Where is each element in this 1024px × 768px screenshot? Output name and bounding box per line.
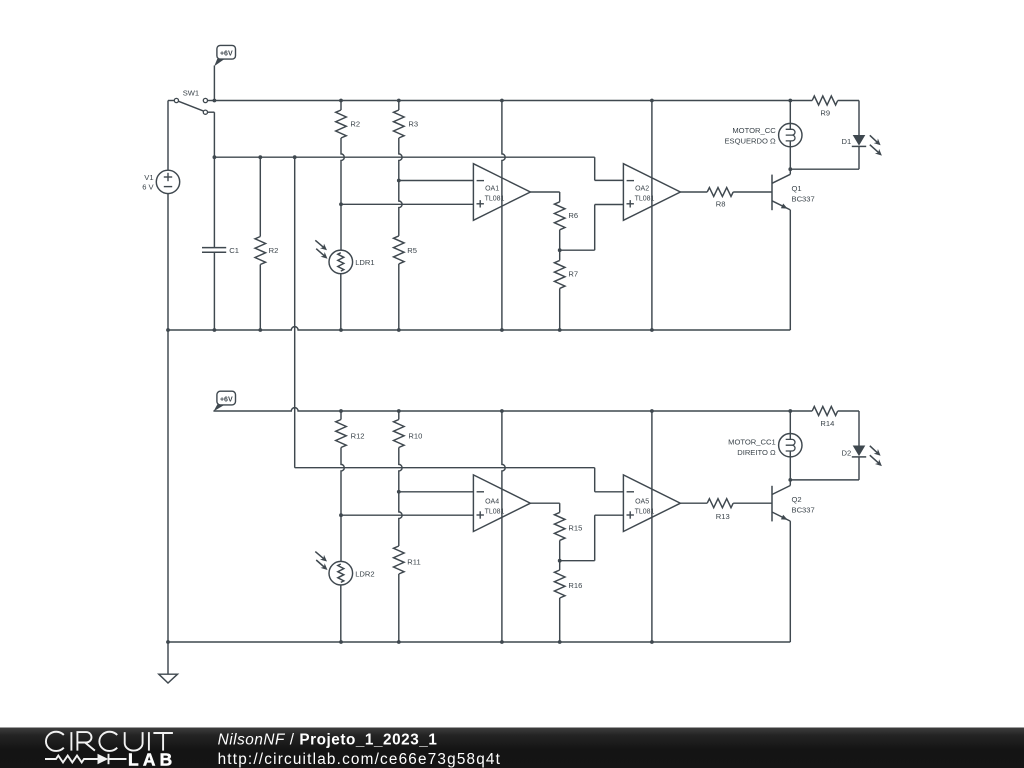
- motor MOTOR_CC: [789, 101, 791, 124]
- wire Q1 collector: [789, 169, 791, 174]
- svg-text:SW1: SW1: [183, 89, 199, 98]
- node A junction (OA1 +): [339, 202, 343, 206]
- svg-text:6 V: 6 V: [142, 182, 154, 191]
- resistor R2 (divider top): [340, 101, 342, 111]
- wire D1 to collector node: [858, 146, 860, 169]
- +6V rail (bottom): [213, 408, 790, 411]
- node B junction (OA1 -): [397, 179, 401, 183]
- svg-text:R16: R16: [568, 581, 582, 590]
- junction dots rail1: [213, 99, 217, 103]
- node D junction (collector): [788, 167, 792, 171]
- reference rail (bottom): [295, 467, 595, 469]
- resistor R11: [399, 492, 402, 546]
- junction dots rail B1: [339, 409, 343, 413]
- resistor R5: [399, 181, 402, 236]
- resistor R7: [559, 250, 561, 260]
- svg-text:D1: D1: [842, 137, 852, 146]
- reference rail2 (top): [214, 156, 594, 158]
- svg-text:R12: R12: [351, 432, 365, 441]
- svg-text:R15: R15: [568, 523, 582, 532]
- svg-text:LAB: LAB: [128, 749, 176, 768]
- transistor Q2: [771, 486, 773, 522]
- wire Q2 emitter: [789, 521, 791, 642]
- CircuitLab logo resistor-diode glyph: [45, 756, 98, 763]
- svg-text:Q2: Q2: [792, 495, 802, 504]
- svg-text:R9: R9: [820, 109, 830, 118]
- ground rail (bottom circuit): [168, 641, 790, 643]
- photoresistor LDR2: [329, 561, 353, 585]
- motor MOTOR_CC1: [789, 411, 791, 434]
- svg-text:C1: C1: [229, 246, 239, 255]
- wire OA1 minus input: [399, 180, 474, 182]
- wire OA1 output: [530, 191, 559, 193]
- svg-text:BC337: BC337: [792, 506, 815, 515]
- wire D2 to collector node: [858, 457, 860, 480]
- resistor R10: [398, 411, 400, 420]
- wire OA2 plus input: [560, 249, 595, 251]
- svg-text:OA5: OA5: [635, 499, 649, 506]
- capacitor C1: [213, 157, 215, 247]
- wire OA1 power: [502, 101, 505, 331]
- wire OA5 plus input: [560, 560, 595, 562]
- svg-text:R3: R3: [408, 119, 418, 128]
- wire OA5 minus input: [594, 468, 596, 492]
- svg-text:DIREITO Ω: DIREITO Ω: [737, 448, 776, 457]
- node H junction (collector 2): [788, 478, 792, 482]
- wire Q2 collector: [789, 480, 791, 486]
- wire OA2 power: [651, 101, 653, 331]
- svg-text:NilsonNF / Projeto_1_2023_1: NilsonNF / Projeto_1_2023_1: [218, 732, 438, 749]
- junction dots ground rail bottom: [166, 640, 170, 644]
- wire R13 to Q2 base: [733, 502, 772, 504]
- svg-text:BC337: BC337: [792, 194, 815, 203]
- svg-text:R7: R7: [568, 270, 578, 279]
- op-amp OA5: [623, 475, 680, 532]
- op-amp OA2: [623, 164, 680, 221]
- svg-text:R6: R6: [568, 211, 578, 220]
- svg-text:OA2: OA2: [635, 186, 649, 193]
- power flag +6V (top): [217, 45, 236, 59]
- diode D1 (LED): [853, 135, 866, 146]
- svg-text:R10: R10: [408, 432, 422, 441]
- svg-text:OA4: OA4: [485, 499, 499, 506]
- wire R8 to Q1 base: [733, 191, 772, 193]
- resistor R15: [554, 512, 565, 540]
- wire OA5 power: [651, 411, 653, 642]
- svg-text:http://circuitlab.com/ce66e73g: http://circuitlab.com/ce66e73g58q4t: [218, 751, 502, 768]
- wire flag to rail: [213, 66, 215, 101]
- wire OA4 plus input: [341, 514, 473, 516]
- svg-text:R14: R14: [820, 419, 834, 428]
- resistor R12: [340, 411, 342, 420]
- resistor R8: [707, 188, 733, 197]
- svg-text:+6V: +6V: [220, 51, 233, 58]
- resistor R3: [398, 101, 400, 111]
- svg-text:MOTOR_CC: MOTOR_CC: [732, 126, 776, 135]
- wire OA4 power: [502, 411, 505, 642]
- power flag +6V (bottom): [217, 391, 236, 405]
- svg-text:V1: V1: [144, 173, 153, 182]
- wire left vertical lower: [167, 330, 169, 642]
- op-amp OA1: [473, 164, 530, 221]
- op-amp OA4: [473, 475, 530, 532]
- diode D2 (LED): [853, 446, 866, 457]
- svg-text:LDR2: LDR2: [355, 569, 374, 578]
- wire R14 to D2: [858, 411, 860, 446]
- svg-text:R2: R2: [269, 246, 279, 255]
- svg-text:D2: D2: [842, 449, 852, 458]
- svg-text:+6V: +6V: [220, 397, 233, 404]
- CircuitLab logo word CIRCUIT: [46, 732, 64, 751]
- svg-text:R13: R13: [716, 512, 730, 521]
- resistor R9: [790, 100, 812, 102]
- wire OA4 output: [530, 502, 559, 504]
- svg-text:MOTOR_CC1: MOTOR_CC1: [728, 438, 776, 447]
- svg-text:R8: R8: [716, 199, 726, 208]
- wire OA5 output: [680, 502, 707, 504]
- svg-text:OA1: OA1: [485, 186, 499, 193]
- node G junction (R15/R16): [558, 559, 562, 563]
- resistor R6: [554, 202, 565, 230]
- ground rail (top circuit): [168, 327, 790, 330]
- wire OA1 plus input: [341, 203, 473, 205]
- svg-text:ESQUERDO Ω: ESQUERDO Ω: [724, 136, 776, 145]
- svg-text:R5: R5: [407, 246, 417, 255]
- photoresistor LDR1: [329, 250, 353, 274]
- svg-text:R11: R11: [407, 557, 420, 566]
- wire R9 to D1: [858, 101, 860, 136]
- resistor R14: [790, 410, 812, 412]
- wire inter-stage vertical: [294, 157, 296, 468]
- node E junction (OA4 +): [339, 513, 343, 517]
- node C junction (R6/R7): [558, 248, 562, 252]
- junction dots rail2: [213, 155, 217, 159]
- wire switch throw down to node: [213, 112, 215, 157]
- ground: [167, 642, 169, 674]
- node F junction (OA4 -): [397, 490, 401, 494]
- +6V rail (top): [211, 100, 790, 102]
- transistor Q1: [771, 175, 773, 211]
- junction dots ground rail top: [166, 328, 170, 332]
- svg-text:Q1: Q1: [792, 184, 802, 193]
- resistor R2 (left): [259, 157, 261, 236]
- wire Q1 emitter: [789, 210, 791, 330]
- svg-text:LDR1: LDR1: [355, 258, 374, 267]
- resistor R13: [707, 499, 733, 508]
- wire OA4 minus input: [399, 491, 474, 493]
- svg-text:R2: R2: [350, 119, 360, 128]
- voltage source V1: [167, 101, 169, 171]
- wire OA2 output: [680, 191, 707, 193]
- wire OA2 minus input: [594, 157, 596, 180]
- resistor R16: [559, 561, 561, 570]
